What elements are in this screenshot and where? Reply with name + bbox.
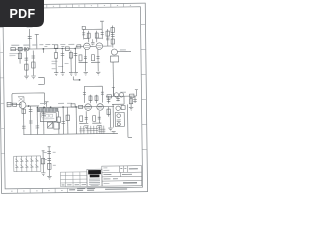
border zone ticks top [47, 3, 124, 8]
plate resistors row2 [90, 95, 96, 104]
ground [31, 76, 36, 79]
rectifier box [14, 156, 41, 172]
resistor R31 [42, 158, 45, 164]
logo Blackstar [88, 170, 101, 186]
ground tank [108, 128, 112, 131]
title block [60, 166, 141, 191]
cathode resistor R16 + cap C11 [79, 55, 82, 61]
wire to rail2 [26, 105, 39, 107]
node junction [26, 48, 29, 51]
box below R8 [55, 49, 57, 53]
capacitor C13 [29, 106, 33, 135]
cathode network b [93, 116, 96, 122]
cap C19b [133, 96, 137, 103]
jack J3 (fx send) [111, 49, 117, 55]
capacitor C6 drop [61, 50, 65, 73]
resistor R1 [11, 48, 16, 51]
PDF badge [0, 0, 44, 27]
cap pair a [79, 126, 85, 134]
labels above rail [39, 44, 74, 46]
triode V2b [97, 104, 104, 111]
capacitor C7 drop [74, 48, 78, 72]
sub rail [112, 103, 124, 105]
sheet outer border [0, 3, 148, 193]
resistor R8 above rail [54, 45, 58, 48]
resistor R21 [36, 107, 38, 134]
transistor Q1 [19, 102, 26, 109]
cap pair b [86, 126, 92, 134]
capacitor C14b [43, 107, 45, 134]
cap pair c [92, 126, 98, 134]
capacitor C15 drop [61, 107, 65, 134]
ground main [41, 173, 45, 176]
logo box [87, 169, 102, 186]
HT bridge row2 [84, 86, 102, 103]
title fields box [102, 166, 142, 186]
border zone ticks bottom [18, 188, 68, 193]
plate resistors row1 [89, 31, 97, 43]
resistor R28 on rail [129, 94, 134, 97]
long wire down right [112, 62, 114, 96]
input rail wire [11, 47, 76, 50]
junction dot [43, 48, 44, 49]
resistor R5 [32, 62, 35, 68]
capacitor C18 [116, 96, 120, 101]
wires into tank [110, 112, 113, 128]
resistor R27 [107, 95, 112, 98]
reverb tank box [115, 112, 124, 126]
diode D5 [35, 156, 38, 172]
resistor R30 [48, 163, 51, 169]
svg-text:PDF: PDF [10, 7, 36, 21]
wire to filter [41, 150, 45, 172]
resistor R12 drop [70, 50, 72, 59]
resistor R29 [130, 96, 132, 107]
resistor R2 [18, 47, 22, 51]
diode D1 [15, 156, 18, 172]
capacitor C2 [24, 47, 25, 51]
resistor R9 on rail [65, 47, 69, 51]
title text marks [103, 168, 109, 170]
cathode resistor R17 + cap C11b [91, 55, 94, 61]
capacitor C3 chain [24, 51, 28, 76]
logo address lines [89, 179, 100, 186]
diode D4 [30, 156, 33, 172]
ground filter [47, 176, 51, 179]
resistor R29b [121, 105, 125, 109]
bottom strip text [69, 188, 127, 191]
sheet inner border [3, 7, 143, 189]
connector J2 (top) [82, 26, 85, 29]
resistor R22 on rail [71, 104, 75, 107]
wire L-bend [38, 77, 44, 84]
border zone ticks right [141, 25, 148, 150]
filter cap chain [48, 147, 51, 177]
net B feed [112, 87, 115, 96]
send chain resistor R18 [112, 26, 114, 48]
diode D3 [25, 156, 28, 172]
resistor R26 drop [108, 107, 110, 117]
net label node A (top left) [29, 29, 31, 49]
switch block SW2 [40, 113, 56, 122]
triode V1a [84, 43, 91, 50]
label text row1 [11, 44, 37, 46]
main ground bus [23, 133, 117, 134]
junction dots [37, 107, 38, 108]
wire [123, 96, 125, 104]
ground R29 [129, 107, 133, 110]
wire drop [75, 107, 77, 134]
cap trio d [98, 126, 105, 134]
resistor R3 (vertical drop) [19, 51, 21, 64]
pot arrow VR0 [45, 102, 49, 107]
reverb driver circle [116, 106, 120, 110]
zone letters bottom band [11, 190, 62, 193]
ground row2 [84, 126, 88, 129]
emitter resistor R20 [23, 109, 25, 135]
resistor R23 drop [67, 107, 69, 134]
relay box K1 [54, 122, 60, 129]
ground [24, 76, 29, 79]
feedback wire [12, 93, 45, 105]
capacitor C20 [47, 158, 51, 160]
capacitor C1 [28, 37, 32, 39]
grid wires [76, 45, 112, 47]
cathode network a [80, 116, 83, 122]
wire stub grid V1 [35, 34, 39, 48]
input jack J1 [7, 102, 11, 107]
cathode drops row2 [86, 111, 99, 123]
revision table [60, 172, 87, 187]
cathode drops [85, 49, 98, 71]
triode V3 [114, 93, 118, 97]
up stub [135, 90, 138, 96]
border zone ticks left [0, 27, 5, 153]
resistor R15 [77, 45, 81, 48]
coupling cap C12 [107, 29, 109, 46]
triode V2a [85, 104, 92, 111]
labels filter [44, 152, 56, 165]
resistor R19 [13, 103, 17, 106]
return wire [128, 104, 132, 137]
trimmer VR6 [47, 122, 53, 128]
labels above [40, 102, 72, 104]
capacitor C19 [47, 151, 51, 153]
resistor R23a drop [58, 111, 60, 117]
HT bridge row1 [84, 29, 103, 39]
coupling cap C10 between tubes [91, 39, 94, 45]
reverb rail [106, 95, 136, 97]
resistor R4 [25, 64, 28, 70]
ground row tubes [83, 72, 87, 75]
pot strip VR1-VR6 [37, 108, 58, 111]
triode V1b [96, 43, 103, 50]
capacitor C17 [107, 96, 111, 103]
diode D2 [20, 156, 23, 172]
ground row [54, 73, 58, 76]
capacitor C4 chain [31, 50, 35, 75]
resistor R25 [79, 105, 83, 108]
tone stack rail [39, 106, 114, 109]
